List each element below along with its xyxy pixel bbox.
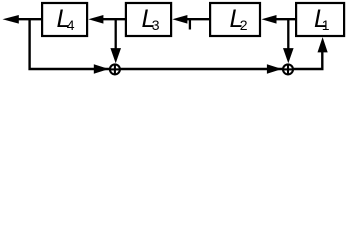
svg-text:2: 2 bbox=[240, 17, 248, 33]
svg-text:4: 4 bbox=[67, 17, 75, 33]
svg-text:1: 1 bbox=[322, 17, 330, 33]
svg-text:3: 3 bbox=[152, 17, 160, 33]
